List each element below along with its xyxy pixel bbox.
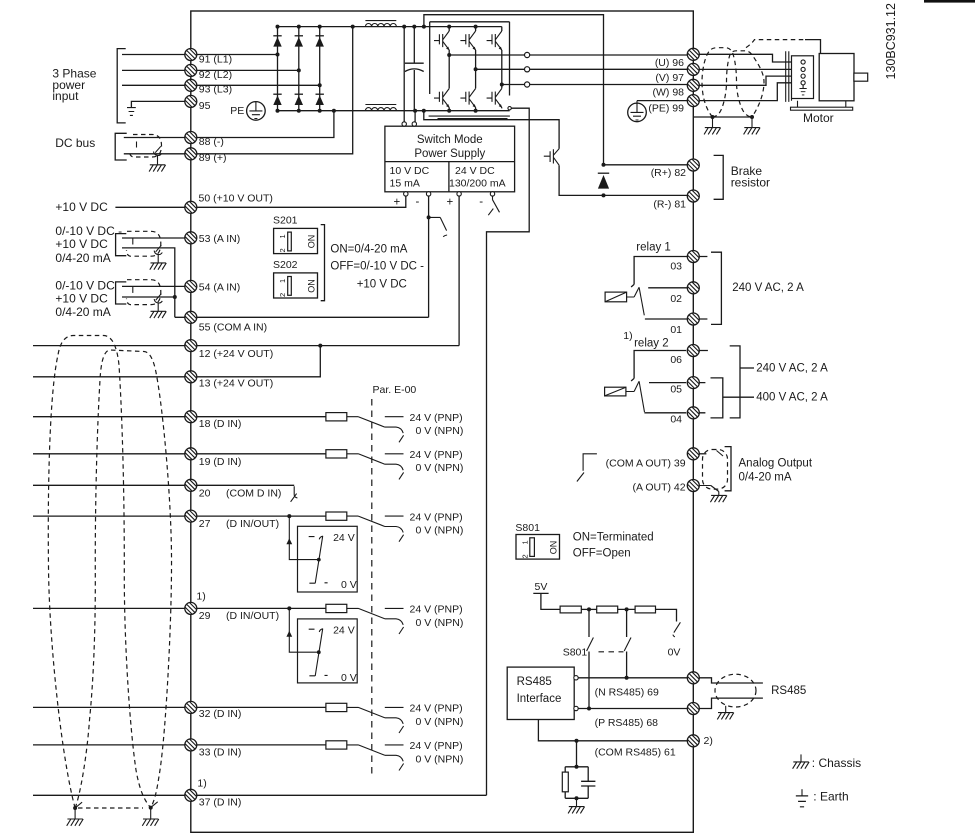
right terminal 99 xyxy=(687,95,699,107)
analog 54 return wire xyxy=(122,296,175,298)
left terminal 19 xyxy=(185,448,197,460)
brake chopper collector feed xyxy=(424,111,559,149)
wire +10V lead xyxy=(115,206,184,208)
relay 1 contact 03 wire xyxy=(631,257,687,288)
row 33 switch and labels xyxy=(347,745,404,771)
svg-text:1: 1 xyxy=(278,279,287,283)
DC link inductor top xyxy=(365,21,396,27)
RS485 box pin 69 xyxy=(574,676,578,680)
pullup resistor R3 xyxy=(635,606,655,613)
inverter frame top bar xyxy=(430,21,510,23)
inverter minus bus emphasis line xyxy=(429,115,510,117)
motor shaft xyxy=(854,73,868,81)
row 33 resistor xyxy=(326,741,347,749)
relay 2 blade xyxy=(639,381,644,412)
DC- tail wire to control common xyxy=(487,108,530,795)
RS485 interface box xyxy=(507,667,574,719)
right terminal 81 xyxy=(687,190,699,202)
svg-text:1): 1) xyxy=(197,778,206,790)
inverter leg V xyxy=(475,27,477,111)
control cable shield outer loop xyxy=(48,336,150,809)
svg-text:input: input xyxy=(52,89,79,103)
pullup resistor R2 xyxy=(597,606,618,613)
svg-text:(COM D IN): (COM D IN) xyxy=(226,488,281,500)
rectifier leg 2 xyxy=(298,27,300,111)
row 32 resistor xyxy=(326,703,347,711)
relay 1 blade xyxy=(639,287,644,315)
svg-text:130/200 mA: 130/200 mA xyxy=(449,178,506,190)
analog 54 wire tick xyxy=(132,286,134,293)
svg-text:OFF=Open: OFF=Open xyxy=(573,547,631,559)
row 18 resistor xyxy=(326,413,347,421)
svg-text:24 V (PNP): 24 V (PNP) xyxy=(410,703,463,715)
left terminal 33 xyxy=(185,739,197,751)
svg-text:32 (D IN): 32 (D IN) xyxy=(199,708,242,720)
wire 88 stub xyxy=(124,137,185,139)
right terminal 82 xyxy=(687,159,699,171)
row 32 switch and labels xyxy=(347,707,404,733)
relay 2 coil xyxy=(605,381,640,396)
analog 54 signal wire xyxy=(122,285,185,287)
svg-text:24 V DC: 24 V DC xyxy=(455,165,495,177)
left terminal 27 xyxy=(185,510,197,522)
right terminal 61 xyxy=(687,735,699,747)
left terminal 50 xyxy=(185,201,197,213)
svg-text:54 (A IN): 54 (A IN) xyxy=(199,282,240,294)
wire terminal 27 run xyxy=(33,515,326,517)
svg-text:24 V (PNP): 24 V (PNP) xyxy=(410,412,463,424)
svg-text:0 V: 0 V xyxy=(341,672,357,684)
svg-text:2: 2 xyxy=(521,554,530,558)
digital input rows: resistors, switches, labels xyxy=(326,412,463,442)
brake chopper IGBT xyxy=(544,149,559,166)
svg-text:(U) 96: (U) 96 xyxy=(655,57,684,69)
rectifier diode D3 xyxy=(316,36,324,47)
svg-text:02: 02 xyxy=(670,293,682,305)
SMPS feed vertical from DC- xyxy=(414,111,416,122)
svg-text:(D IN/OUT): (D IN/OUT) xyxy=(226,610,279,622)
right terminal 69 xyxy=(687,672,699,684)
svg-text:55 (COM A IN): 55 (COM A IN) xyxy=(199,322,267,334)
svg-text:24 V (PNP): 24 V (PNP) xyxy=(410,604,463,616)
svg-text:53 (A IN): 53 (A IN) xyxy=(199,233,240,245)
control shield right chassis ground xyxy=(142,819,159,826)
svg-text:(R+) 82: (R+) 82 xyxy=(651,167,686,179)
svg-text:2: 2 xyxy=(278,293,287,297)
svg-text:ON: ON xyxy=(306,279,316,293)
analog 53 cable shield xyxy=(127,231,161,256)
wire terminal 29 run xyxy=(33,607,326,609)
left terminal 12 xyxy=(185,340,197,352)
svg-text:+10 V DC: +10 V DC xyxy=(357,279,407,291)
row 18 switch and labels xyxy=(347,417,404,443)
black index bar top right xyxy=(924,0,975,3)
svg-text:95: 95 xyxy=(199,100,211,112)
pullup wire xyxy=(618,608,635,610)
terminal 29 mode box xyxy=(286,608,357,683)
inverter frame left bar xyxy=(429,22,431,94)
PE 99 earth circle xyxy=(637,100,687,102)
svg-text:(COM RS485) 61: (COM RS485) 61 xyxy=(595,747,676,759)
svg-text:1): 1) xyxy=(623,330,632,342)
analog 53 signal wire xyxy=(122,237,185,239)
svg-text:0/4-20 mA: 0/4-20 mA xyxy=(739,471,792,483)
wire N RS485 69 xyxy=(578,677,687,679)
bus junction dots xyxy=(276,25,426,113)
svg-text:PE: PE xyxy=(230,105,244,117)
analog out 42 ground xyxy=(699,486,718,496)
svg-text:12 (+24 V OUT): 12 (+24 V OUT) xyxy=(199,348,273,360)
svg-text:-: - xyxy=(479,196,483,208)
svg-text:S801: S801 xyxy=(515,522,540,534)
relay 2 contact 06 wire xyxy=(631,351,686,382)
inverter leg dots xyxy=(447,25,504,113)
IGBT U bottom xyxy=(434,89,450,108)
svg-text:29: 29 xyxy=(199,610,211,622)
svg-text:37 (D IN): 37 (D IN) xyxy=(199,797,242,809)
pullup resistor R1 xyxy=(560,606,581,613)
svg-text:0/4-20 mA: 0/4-20 mA xyxy=(55,305,110,319)
rectifier leg 1 xyxy=(277,27,279,111)
svg-text:24 V (PNP): 24 V (PNP) xyxy=(410,449,463,461)
svg-text:Analog Output: Analog Output xyxy=(739,457,813,469)
svg-text:04: 04 xyxy=(670,414,682,426)
motor wire PE xyxy=(699,83,801,101)
control shield left anchor xyxy=(73,806,77,810)
motor pin earth xyxy=(802,85,804,88)
left terminal 55 xyxy=(185,311,197,323)
left terminal 29 xyxy=(185,602,197,614)
svg-text:13 (+24 V OUT): 13 (+24 V OUT) xyxy=(199,377,273,389)
RC capacitor xyxy=(581,781,595,786)
svg-text:Switch Mode: Switch Mode xyxy=(417,134,483,146)
motor body xyxy=(819,54,854,101)
svg-text:18 (D IN): 18 (D IN) xyxy=(199,418,242,430)
svg-text:ON: ON xyxy=(549,541,559,555)
svg-text:0 V (NPN): 0 V (NPN) xyxy=(416,462,464,474)
S801 DIP switch xyxy=(516,535,560,560)
svg-text:130BC931.12: 130BC931.12 xyxy=(884,3,898,80)
svg-text:(COM A OUT) 39: (COM A OUT) 39 xyxy=(606,457,686,469)
wire COM RS485 61 xyxy=(538,720,687,741)
svg-text:89 (+): 89 (+) xyxy=(199,152,227,164)
left terminal 88 xyxy=(185,132,197,144)
left terminal 18 xyxy=(185,411,197,423)
svg-text:(A OUT) 42: (A OUT) 42 xyxy=(632,481,685,493)
wire +10V from SMPS to terminal 50 xyxy=(197,196,406,207)
svg-text:19 (D IN): 19 (D IN) xyxy=(199,456,242,468)
analog 54 cable shield xyxy=(127,280,161,305)
rectifier diode D2 xyxy=(295,36,303,47)
wire terminal 12 run xyxy=(33,345,459,347)
RS485 shield drain xyxy=(725,706,727,713)
wire 95 earth lead xyxy=(131,101,197,107)
svg-text:RS485: RS485 xyxy=(771,685,806,697)
svg-text:0 V (NPN): 0 V (NPN) xyxy=(416,753,464,765)
svg-text:S201: S201 xyxy=(273,215,298,227)
left terminal 54 xyxy=(185,280,197,292)
SMPS top input circles xyxy=(402,122,406,126)
left terminal 53 xyxy=(185,232,197,244)
svg-text:-: - xyxy=(416,196,420,208)
svg-text:15 mA: 15 mA xyxy=(390,178,420,190)
DC bus shield tick xyxy=(136,142,138,148)
pullup wire xyxy=(581,608,596,610)
terminal 27 mode box xyxy=(286,516,357,592)
IGBT V top xyxy=(460,31,476,50)
relay 1 common 02 wire xyxy=(648,287,687,289)
svg-text:24 V (PNP): 24 V (PNP) xyxy=(410,511,463,523)
DC bus shield chassis ground xyxy=(149,165,166,172)
RC resistor xyxy=(562,772,568,792)
svg-text:0V: 0V xyxy=(668,647,681,659)
wire L2 xyxy=(122,69,299,71)
DC link inductor bottom xyxy=(365,105,396,111)
0V switch blade xyxy=(673,622,681,637)
left terminal 95 xyxy=(185,95,197,107)
svg-text:+10 V DC: +10 V DC xyxy=(55,237,108,251)
svg-text:(D IN/OUT): (D IN/OUT) xyxy=(226,518,279,530)
svg-text:2): 2) xyxy=(704,735,713,747)
RS485 external pair xyxy=(699,678,763,709)
motor base plate xyxy=(791,107,853,110)
svg-text:resistor: resistor xyxy=(731,176,770,190)
IGBT W bottom xyxy=(487,89,503,108)
control shield right anchor xyxy=(149,806,153,810)
analog out cable dashes xyxy=(703,450,728,490)
relay 2 240V tap xyxy=(740,367,754,369)
SMPS box xyxy=(385,126,515,192)
terminal 29 tap junction xyxy=(287,606,291,610)
svg-text:0 V (NPN): 0 V (NPN) xyxy=(416,617,464,629)
enclosure border xyxy=(191,11,694,832)
IGBT U top xyxy=(434,31,450,50)
DC+ top bus xyxy=(278,26,502,28)
relay 1 bracket xyxy=(699,252,721,324)
svg-text:(W) 98: (W) 98 xyxy=(653,87,685,99)
svg-text:0/-10 V DC: 0/-10 V DC xyxy=(55,278,115,292)
motor gland plate xyxy=(786,51,789,102)
svg-text:91 (L1): 91 (L1) xyxy=(199,53,232,65)
S201 DIP switch xyxy=(274,228,318,253)
motor wire U xyxy=(699,54,801,62)
24V return open switch xyxy=(488,196,499,215)
left terminal 89 xyxy=(185,148,197,160)
analog out 39 stub xyxy=(699,453,706,455)
motor pins xyxy=(801,60,805,64)
svg-text:: Chassis: : Chassis xyxy=(812,756,861,770)
motor cable shield inner loop xyxy=(713,51,765,117)
relay 2 outer bracket xyxy=(730,346,740,418)
svg-text:Motor: Motor xyxy=(803,111,834,125)
brake resistor bracket xyxy=(714,155,724,199)
svg-text:ON: ON xyxy=(306,235,316,249)
svg-text:24 V (PNP): 24 V (PNP) xyxy=(410,740,463,752)
svg-text:05: 05 xyxy=(670,384,682,396)
RS485 box pin 68 xyxy=(574,706,578,710)
svg-text:24 V: 24 V xyxy=(333,532,355,544)
analog 53 return wire to COM xyxy=(122,248,175,317)
svg-text:10 V DC: 10 V DC xyxy=(390,165,430,177)
DC- tail ring node xyxy=(508,107,511,110)
svg-text:240 V AC, 2 A: 240 V AC, 2 A xyxy=(756,363,828,375)
10V return switch blade xyxy=(429,217,448,236)
left terminal 32 xyxy=(185,701,197,713)
phase wire W xyxy=(502,84,687,86)
wire terminal 55 run xyxy=(175,316,429,318)
RC loop xyxy=(565,767,588,799)
control shield bottom link xyxy=(78,807,143,809)
wire to 0V switch xyxy=(656,609,677,621)
right terminal 68 xyxy=(687,703,699,715)
svg-text:0/-10 V DC -: 0/-10 V DC - xyxy=(55,224,122,238)
DC bus bracket xyxy=(115,133,127,160)
wire +24V from SMPS down to terminal 12 xyxy=(458,196,460,346)
relay 1 contact 01 wire xyxy=(645,318,687,320)
svg-text:1): 1) xyxy=(196,590,205,602)
motor shield ground right xyxy=(750,115,754,119)
inverter leg W xyxy=(501,27,503,109)
svg-text:(R-) 81: (R-) 81 xyxy=(653,198,686,210)
wire terminal 32 run xyxy=(33,706,326,708)
S801 termination switch 1 xyxy=(588,609,590,637)
svg-text:5V: 5V xyxy=(535,581,548,593)
motor shield ground left xyxy=(711,115,715,119)
phase wire V xyxy=(476,68,688,70)
motor wire W xyxy=(699,76,801,85)
motor wire V xyxy=(699,68,801,70)
analog 54 return junction xyxy=(173,295,177,299)
relay 2 common 05 wire xyxy=(649,382,686,384)
right terminal 98 xyxy=(687,79,699,91)
wire 89 stub xyxy=(124,153,185,155)
legend earth xyxy=(801,789,803,796)
right terminal 06 xyxy=(687,345,699,357)
svg-text:0 V (NPN): 0 V (NPN) xyxy=(416,716,464,728)
analog out bracket xyxy=(725,447,731,491)
svg-text:03: 03 xyxy=(670,261,682,273)
wire terminal 19 run xyxy=(33,453,326,455)
svg-text:+10 V DC: +10 V DC xyxy=(55,200,108,214)
R+ wire to terminal 82 xyxy=(604,164,688,166)
row 27 switch and labels xyxy=(347,516,404,542)
wire L3 xyxy=(122,84,320,86)
relay 2 400V tap xyxy=(723,396,754,398)
relay 2 contact 04 wire xyxy=(644,412,686,414)
right terminal 05 xyxy=(687,377,699,389)
control shield right drain switch xyxy=(151,802,158,819)
DC bus shield drain switch xyxy=(154,146,162,165)
svg-text:(P RS485) 68: (P RS485) 68 xyxy=(595,717,659,729)
rectifier leg 3 xyxy=(319,27,321,111)
motor shield ground bus xyxy=(693,116,752,118)
control shield left drain switch xyxy=(75,802,82,819)
right terminal 96 xyxy=(687,48,699,60)
svg-text:ON=Terminated: ON=Terminated xyxy=(573,531,654,543)
svg-text:Power Supply: Power Supply xyxy=(414,148,485,160)
row 29 switch and labels xyxy=(347,608,404,634)
svg-text:+10 V DC: +10 V DC xyxy=(55,291,108,305)
svg-text:OFF=0/-10 V DC -: OFF=0/-10 V DC - xyxy=(330,261,424,273)
svg-text:Interface: Interface xyxy=(517,693,562,705)
motor feet xyxy=(792,99,846,108)
analog 53 shield drain switch xyxy=(154,245,162,263)
relay 1 coil xyxy=(605,287,639,302)
rectifier diode D1 xyxy=(273,36,281,47)
row 27 resistor xyxy=(326,512,347,520)
right terminal 42 xyxy=(687,480,699,492)
wire 88 (-) to DC- bus xyxy=(197,111,334,138)
relay 2 inner bracket xyxy=(711,378,723,418)
svg-text:(PE) 99: (PE) 99 xyxy=(648,103,684,115)
left terminal 20 xyxy=(185,479,197,491)
output node circle V xyxy=(525,67,530,72)
left terminal 93 xyxy=(185,79,197,91)
output node circle W xyxy=(525,82,530,87)
legend chassis xyxy=(800,754,802,761)
right terminal 03 xyxy=(687,251,699,263)
SMPS output circles xyxy=(404,192,495,196)
svg-text:0 V (NPN): 0 V (NPN) xyxy=(416,425,464,437)
wire terminal 20 run xyxy=(33,484,294,486)
DC bus cable shield xyxy=(130,135,162,158)
RC ground xyxy=(575,796,579,800)
svg-text:240 V AC, 2 A: 240 V AC, 2 A xyxy=(732,282,804,294)
wire terminal 33 run xyxy=(33,744,326,746)
svg-text:0 V: 0 V xyxy=(341,579,357,591)
svg-text:DC bus: DC bus xyxy=(55,136,95,150)
rectifier diode D5 xyxy=(295,94,303,105)
svg-text:(V) 97: (V) 97 xyxy=(655,72,684,84)
row 19 switch and labels xyxy=(347,454,404,480)
wire 10V return with switch xyxy=(428,196,430,317)
svg-text:33 (D IN): 33 (D IN) xyxy=(199,746,242,758)
svg-text:1: 1 xyxy=(278,234,287,238)
DC bus capacitor C1 xyxy=(405,27,424,111)
right terminal 39 xyxy=(687,448,699,460)
svg-text:01: 01 xyxy=(670,324,682,336)
control cable shield inner loop xyxy=(75,350,171,808)
svg-text:2: 2 xyxy=(278,248,287,252)
analog out left hook xyxy=(577,454,597,482)
rectifier diode D4 xyxy=(273,94,281,105)
motor cable shield tail to motor xyxy=(746,40,805,48)
svg-text:92 (L2): 92 (L2) xyxy=(199,69,232,81)
IGBT V bottom xyxy=(460,89,476,108)
row 19 resistor xyxy=(326,450,347,458)
left terminal 13 xyxy=(185,371,197,383)
analog 53 shield chassis ground xyxy=(150,263,167,270)
SMPS feed vertical from DC+ xyxy=(403,27,405,122)
wire terminal 13 run with link up to 12 xyxy=(33,346,320,377)
right terminal 04 xyxy=(687,407,699,419)
svg-text:88 (-): 88 (-) xyxy=(199,136,224,148)
rectifier diode D6 xyxy=(316,94,324,105)
analog 54 bracket xyxy=(116,282,127,304)
svg-text:0/4-20 mA: 0/4-20 mA xyxy=(55,251,110,265)
brake junction dots xyxy=(602,163,606,198)
RC termination tap xyxy=(575,739,579,743)
right terminal 02 xyxy=(687,282,699,294)
S801 mechanical link xyxy=(599,651,624,653)
left terminal 37 xyxy=(185,789,197,801)
relay 2 stubs xyxy=(699,351,708,413)
svg-text:: Earth: : Earth xyxy=(813,790,848,804)
Par. E-00 dashed boundary xyxy=(371,399,373,777)
svg-text:06: 06 xyxy=(670,354,682,366)
svg-text:relay 1: relay 1 xyxy=(636,241,671,253)
left terminal 91 xyxy=(185,49,197,61)
